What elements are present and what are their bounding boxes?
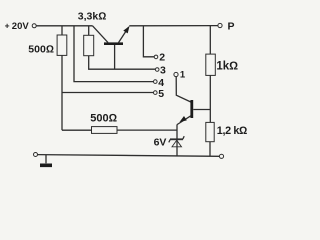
wire 1k top lead from output rail — [209, 26, 211, 54]
resistor 1,2kohm vertical — [206, 122, 247, 141]
svg-text:1,2 kΩ: 1,2 kΩ — [217, 125, 247, 137]
wire Q1 emitter diagonal with arrow to output rail — [119, 26, 130, 43]
wire zener branch vertical from Q2 emitter to bottom rail — [176, 124, 178, 155]
wire R3 right lead to zener top node — [117, 129, 177, 131]
node +20V input terminal — [5, 21, 37, 32]
svg-text:20V: 20V — [12, 21, 30, 32]
svg-text:500Ω: 500Ω — [28, 43, 54, 55]
svg-text:3: 3 — [160, 64, 166, 76]
resistor R3 500ohm horizontal — [90, 113, 117, 134]
node terminal 1 — [174, 69, 186, 80]
resistor R2 3,3kohm vertical — [78, 11, 107, 56]
wire bottom rail — [38, 155, 220, 157]
wire Q1 base lead down to terminal-3 wire — [114, 45, 116, 69]
wire Q2 collector from terminal 1 down then diagonal to bar — [176, 77, 191, 102]
svg-text:6V: 6V — [154, 137, 167, 149]
wire 1.2k bottom lead to bottom rail — [209, 142, 211, 157]
wire from input rail down and right to terminal 4 — [74, 26, 154, 82]
wire from output rail down to terminal 2 — [143, 26, 154, 57]
svg-text:3,3kΩ: 3,3kΩ — [78, 11, 107, 23]
wire R2 bottom lead down then right to terminal 3 (junction with Q1 base) — [89, 56, 156, 69]
node terminal 4 — [154, 77, 165, 89]
node bottom-right terminal — [219, 154, 223, 158]
resistor 1kohm vertical — [206, 54, 238, 75]
svg-text:+: + — [5, 21, 10, 31]
node bottom-left terminal — [34, 153, 38, 157]
svg-text:1: 1 — [180, 69, 186, 80]
ground — [40, 155, 52, 167]
node P output terminal — [218, 20, 235, 32]
transistor Q1 base bar — [104, 42, 123, 45]
wire Q2 emitter diagonal with arrow down to zener — [177, 116, 191, 125]
resistor R1 500ohm vertical — [28, 35, 66, 55]
wire Q2 base from bar to divider junction — [193, 109, 210, 111]
wire input rail from +20V to Q1 collector bend — [36, 25, 92, 27]
wire from R1 lead to terminal 5 — [62, 92, 154, 94]
node terminal 2 — [154, 52, 165, 64]
wire 500ohm R3 left lead from R1 lead — [62, 129, 92, 131]
transistor Q2 base bar — [190, 100, 193, 118]
node terminal 5 — [154, 88, 165, 100]
wire 500ohm R1 top lead — [61, 26, 63, 35]
zener diode 6V — [154, 136, 185, 149]
svg-text:500Ω: 500Ω — [90, 113, 117, 125]
wire output rail from Q1 emitter to terminal P — [129, 25, 218, 27]
wire R1 bottom lead down to R3 wire — [61, 55, 63, 130]
wire 1k bottom lead down to 1.2k top (divider) — [209, 75, 211, 122]
svg-text:P: P — [228, 20, 235, 32]
svg-text:1kΩ: 1kΩ — [216, 60, 238, 72]
wire 3.3k R2 top lead — [88, 26, 90, 36]
node terminal 3 — [155, 64, 166, 76]
svg-text:5: 5 — [158, 88, 164, 100]
wire Q1 collector diagonal from input rail — [93, 26, 109, 43]
svg-text:2: 2 — [159, 52, 165, 64]
